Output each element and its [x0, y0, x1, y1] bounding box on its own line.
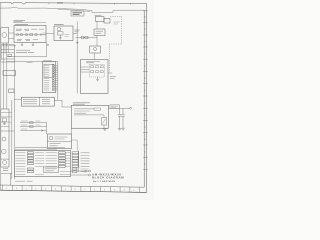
- regulator box Q: [102, 118, 107, 126]
- continuation label box: [71, 11, 84, 16]
- bar antenna component: [81, 36, 84, 39]
- vertical wire to table: [57, 62, 59, 100]
- wire down from tuner: [7, 43, 47, 57]
- terminal box T7: [72, 168, 77, 170]
- power note text: [111, 106, 118, 107]
- regulator wire: [103, 125, 105, 128]
- wires to output circles: [71, 171, 89, 175]
- wire tall box to bus: [1, 130, 15, 132]
- terminal box T5: [72, 163, 79, 165]
- tuner transistor Q1: [20, 33, 22, 35]
- wire BPF down: [96, 36, 98, 47]
- continuation label text: [73, 13, 83, 15]
- IC ground: [96, 77, 99, 81]
- AM IF IC label: [86, 62, 100, 63]
- ground stub 2 under tuner: [32, 43, 35, 46]
- ground on bus: [76, 40, 79, 43]
- block row 9: [16, 173, 71, 175]
- bar antenna label: [75, 30, 80, 32]
- tall box component: [2, 118, 6, 122]
- left bus wire 3: [11, 100, 13, 179]
- power inner small box: [94, 108, 100, 110]
- wire power to jack: [71, 128, 73, 134]
- dashed tuner boundary top: [110, 15, 122, 17]
- connector block CN1: [42, 62, 56, 93]
- tuner coil L1: [17, 34, 19, 36]
- ground G2: [118, 129, 122, 131]
- jack circle: [49, 136, 53, 140]
- ground G3: [121, 128, 124, 130]
- frame left border: [0, 3, 2, 191]
- wire horizontal W2: [7, 61, 58, 63]
- PLL box: [96, 17, 105, 22]
- phone circle: [2, 137, 6, 141]
- block row 1: [16, 152, 71, 154]
- jack box: [48, 134, 72, 149]
- tuner transistor Q2: [35, 33, 37, 35]
- tall left box (cassette/speaker): [1, 109, 9, 167]
- tuner section top line: [13, 21, 46, 23]
- xtal osc circle: [94, 48, 97, 51]
- band switch enclosure: [1, 45, 15, 63]
- tuner mixer: [25, 33, 27, 35]
- PLL label: [95, 14, 102, 16]
- frame bottom ruler strip: [0, 185, 144, 187]
- wire osc to bus: [73, 33, 77, 35]
- connector block label: [43, 59, 52, 61]
- block row 3: [16, 157, 71, 159]
- switch box SW: [3, 71, 16, 75]
- dashed tuner boundary vertical: [121, 16, 123, 44]
- block row 6: [16, 165, 71, 167]
- IC internal block 1: [91, 66, 94, 68]
- IC pin wires: [81, 67, 90, 72]
- wire into table: [14, 99, 21, 101]
- tuner labels top: [16, 29, 44, 30]
- block sub-box: [43, 167, 58, 172]
- labels above main connector block: [15, 147, 65, 149]
- vertical bus right of osc: [76, 22, 78, 94]
- text right of PLL: [114, 22, 120, 24]
- dashed tuner boundary horizontal: [110, 43, 122, 45]
- osc transistor: [57, 27, 61, 31]
- terminal box T8: [72, 171, 77, 173]
- wire bottom left: [1, 172, 12, 174]
- motor circle: [3, 160, 7, 164]
- tuner right text: [43, 33, 46, 35]
- terminal box T3: [72, 157, 79, 159]
- PLL box 2: [104, 18, 110, 23]
- wire osc box down: [94, 53, 96, 60]
- ruler cell digits: [7, 188, 134, 192]
- trim line ticks: [49, 3, 130, 5]
- svg-text:No.1-1 AEZ7451B: No.1-1 AEZ7451B: [93, 180, 115, 183]
- osc inner text: [65, 35, 70, 37]
- tall box component ground: [3, 122, 6, 125]
- AM IF inner dashed box: [90, 65, 105, 78]
- antenna coil: [2, 33, 7, 38]
- wire down to jack box: [46, 123, 48, 135]
- tall box dividers: [1, 112, 9, 126]
- text above W2 wire: [27, 62, 33, 64]
- connector rows: [44, 65, 50, 90]
- power output terminal: [130, 107, 132, 109]
- wire jack to block area: [72, 140, 78, 151]
- power output wire: [109, 107, 130, 109]
- capacitor C2: [121, 108, 124, 128]
- table rows: [23, 100, 50, 104]
- torn edge shadow: [58, 9, 90, 11]
- power note box: [110, 105, 120, 108]
- tuner signal wire: [14, 34, 46, 36]
- note left of title: [84, 171, 87, 172]
- IC internal block 3: [100, 66, 103, 68]
- IC output wire: [108, 72, 112, 74]
- output circles: [89, 170, 91, 172]
- AM IF IC outer box U1: [81, 60, 109, 94]
- block row 4: [16, 160, 71, 162]
- frame bottom ruler ticks: [3, 185, 140, 192]
- antenna wires: [9, 33, 14, 39]
- table divider: [39, 97, 41, 106]
- power inner wire: [74, 115, 104, 118]
- mid-left arrow 3: [41, 130, 43, 132]
- IC internal block 4: [91, 71, 94, 73]
- frame top line (torn edge): [0, 7, 144, 12]
- dashed tuner boundary vertical 2: [109, 44, 111, 72]
- tuner block label: [15, 23, 28, 25]
- block row 2: [16, 155, 71, 157]
- power block label: [73, 103, 90, 104]
- block row 7: [16, 168, 34, 170]
- left bus wire 1: [2, 43, 4, 109]
- terminal bus: [77, 151, 79, 173]
- BPF box: [94, 29, 105, 36]
- mid-left wire labels: [21, 121, 41, 129]
- text under tall box: [3, 168, 8, 170]
- power block: [71, 105, 108, 128]
- wire PLL to BPF: [96, 21, 98, 29]
- IC output label: [110, 76, 116, 78]
- osc block: [54, 26, 73, 41]
- mid-left signal wires with arrows: [20, 123, 47, 131]
- block row 8: [16, 171, 71, 173]
- tall box divider: [1, 158, 9, 160]
- small box left: [9, 89, 14, 93]
- table box: [21, 97, 54, 106]
- page outer trim line (top): [0, 3, 147, 4]
- ground stub 3 under tuner: [47, 44, 49, 47]
- BPF text: [96, 31, 104, 33]
- schematic footnote text: [15, 180, 33, 182]
- tuner resistor: [30, 34, 33, 36]
- wire table to power box: [54, 100, 71, 107]
- block sub-box text: [45, 169, 57, 171]
- frame right border ticks: [143, 11, 147, 170]
- crystal box X1: [58, 32, 64, 35]
- IC internal block 5: [96, 71, 99, 73]
- terminal box T6: [72, 165, 79, 167]
- capacitor C1: [118, 108, 121, 128]
- terminal box T4: [72, 160, 79, 162]
- wire tuner to osc: [46, 33, 54, 35]
- connector pin squares: [52, 65, 54, 91]
- tuner block: [14, 26, 46, 43]
- bar antenna wire: [76, 37, 98, 39]
- frame right double border: [144, 4, 146, 193]
- regulator symbol: [103, 119, 106, 124]
- left bus wire 2: [6, 43, 8, 109]
- main bottom block: [14, 151, 70, 177]
- ladder stubs: [1, 46, 8, 59]
- band switch ladder: [1, 46, 16, 59]
- tuner pack label: [14, 21, 26, 22]
- wire to border: [9, 173, 11, 185]
- power block text rows: [74, 109, 94, 113]
- bar antenna trim box: [85, 36, 88, 38]
- terminal box T1: [72, 152, 79, 154]
- connector inner box: [44, 64, 54, 77]
- left bus wire 4: [13, 45, 15, 179]
- ground G1: [102, 129, 107, 131]
- jack divider: [48, 141, 72, 143]
- tuner cap C1: [40, 34, 41, 36]
- tall box stubs to bus: [9, 112, 12, 122]
- paper background: [0, 0, 154, 200]
- IC internal block 2: [96, 66, 99, 68]
- terminal box T2: [72, 155, 79, 157]
- right border digits: [144, 16, 146, 165]
- xtal osc box: [90, 46, 101, 53]
- mid-left component 1: [30, 122, 34, 124]
- osc ground: [59, 35, 62, 40]
- speaker circle: [2, 149, 7, 154]
- terminal labels: [81, 153, 90, 172]
- jack lower text: [50, 144, 61, 146]
- osc block label: [54, 24, 64, 26]
- svg-text:BLOCK DIAGRAM: BLOCK DIAGRAM: [92, 176, 124, 180]
- text rows below tuner: [16, 50, 34, 52]
- block row 5: [16, 163, 71, 165]
- ladder switch box: [8, 54, 11, 56]
- antenna box: [1, 28, 9, 44]
- connector stubs: [54, 65, 58, 90]
- IC internal block 6: [100, 71, 103, 73]
- tuner labels bottom: [17, 39, 38, 40]
- ground stub 1 under tuner: [21, 43, 24, 46]
- jack text: [55, 137, 68, 139]
- mid-left component 2: [30, 126, 34, 128]
